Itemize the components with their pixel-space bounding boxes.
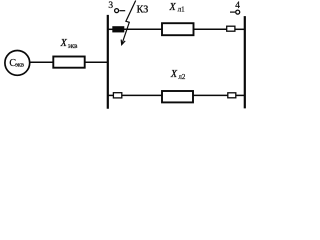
svg-text:4: 4 [235,1,240,11]
svg-text:X: X [170,69,178,80]
wire bus 1 to breaker Q1 (top branch stub) [108,28,113,30]
breaker Q2 (small box) [227,26,235,31]
wire bus 1 to breaker Q3 (bottom branch stub) [108,94,114,96]
svg-text:X: X [60,38,68,49]
wire source C1 to resistor Xэкв [30,61,53,63]
bus 1 (left busbar) [107,15,109,109]
node 3 (terminal circle with dash) [115,9,119,13]
reactor Xл1 [162,23,194,35]
node 4 (terminal dash with circle) [230,11,235,13]
svg-text:КЗ: КЗ [137,5,149,16]
breaker Q3 (small box) [113,93,121,98]
wire breaker Q1 to reactor Xл1 [124,28,162,30]
svg-text:экв: экв [15,62,24,69]
svg-text:3: 3 [108,1,113,11]
svg-text:л2: л2 [178,73,185,81]
bus 2 (right busbar) [244,16,246,108]
resistor Xэкв [53,57,84,68]
svg-text:л1: л1 [178,5,185,13]
source C1 (system source circle) [5,51,30,76]
svg-text:экв: экв [68,42,78,50]
wire breaker Q2 to bus 2 [235,28,245,30]
wire reactor Xл1 to breaker Q2 [194,28,227,30]
reactor Xл2 [162,91,193,102]
wire breaker Q3 to reactor Xл2 [122,94,162,96]
svg-text:X: X [169,2,177,13]
breaker Q4 (small box) [228,93,236,98]
short-circuit lightning arrow КЗ [121,1,136,45]
wire reactor Xл2 to breaker Q4 [193,94,228,96]
breaker Q1 (closed, filled black) [113,27,124,33]
wire breaker Q4 to bus 2 [236,94,245,96]
wire resistor Xэкв to left bus [86,61,109,63]
